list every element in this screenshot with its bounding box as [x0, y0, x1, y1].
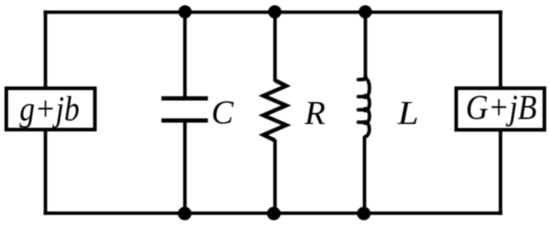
source box g+jb — [6, 88, 95, 129]
junction dot: bottom rail / inductor — [357, 207, 371, 221]
load box G+jB — [456, 88, 544, 130]
wire: resistor branch bottom lead — [273, 140, 277, 214]
wire: top rail — [44, 10, 503, 13]
inductor L1 coil — [358, 76, 369, 137]
junction dot: bottom rail / capacitor — [178, 207, 192, 221]
svg-text:g+jb: g+jb — [20, 89, 80, 128]
junction dot: bottom rail / resistor — [267, 207, 281, 221]
wire: inductor branch bottom lead — [363, 136, 367, 214]
wire: right vertical from top rail to load box — [499, 10, 503, 88]
resistor R1 zigzag — [263, 80, 286, 140]
wire: resistor branch top lead — [273, 12, 277, 81]
wire: left vertical from top rail to source box — [44, 10, 48, 88]
svg-text:R: R — [304, 95, 326, 132]
wire: right vertical from load box to bottom rail — [499, 130, 503, 215]
svg-text:L: L — [397, 95, 419, 132]
wire: inductor branch top lead — [364, 12, 368, 77]
svg-text:G+jB: G+jB — [466, 88, 537, 127]
junction dot: top rail / resistor — [268, 5, 281, 18]
capacitor C1 top plate — [161, 96, 208, 100]
wire: capacitor branch top lead — [183, 12, 187, 97]
svg-text:C: C — [211, 95, 233, 132]
wire: bottom rail — [44, 211, 503, 214]
wire: capacitor branch bottom lead — [183, 121, 187, 214]
junction dot: top rail / inductor — [359, 5, 372, 18]
junction dot: top rail / capacitor — [178, 5, 191, 18]
capacitor C1 bottom plate — [161, 118, 208, 122]
wire: left vertical from source box to bottom rail — [44, 130, 48, 215]
